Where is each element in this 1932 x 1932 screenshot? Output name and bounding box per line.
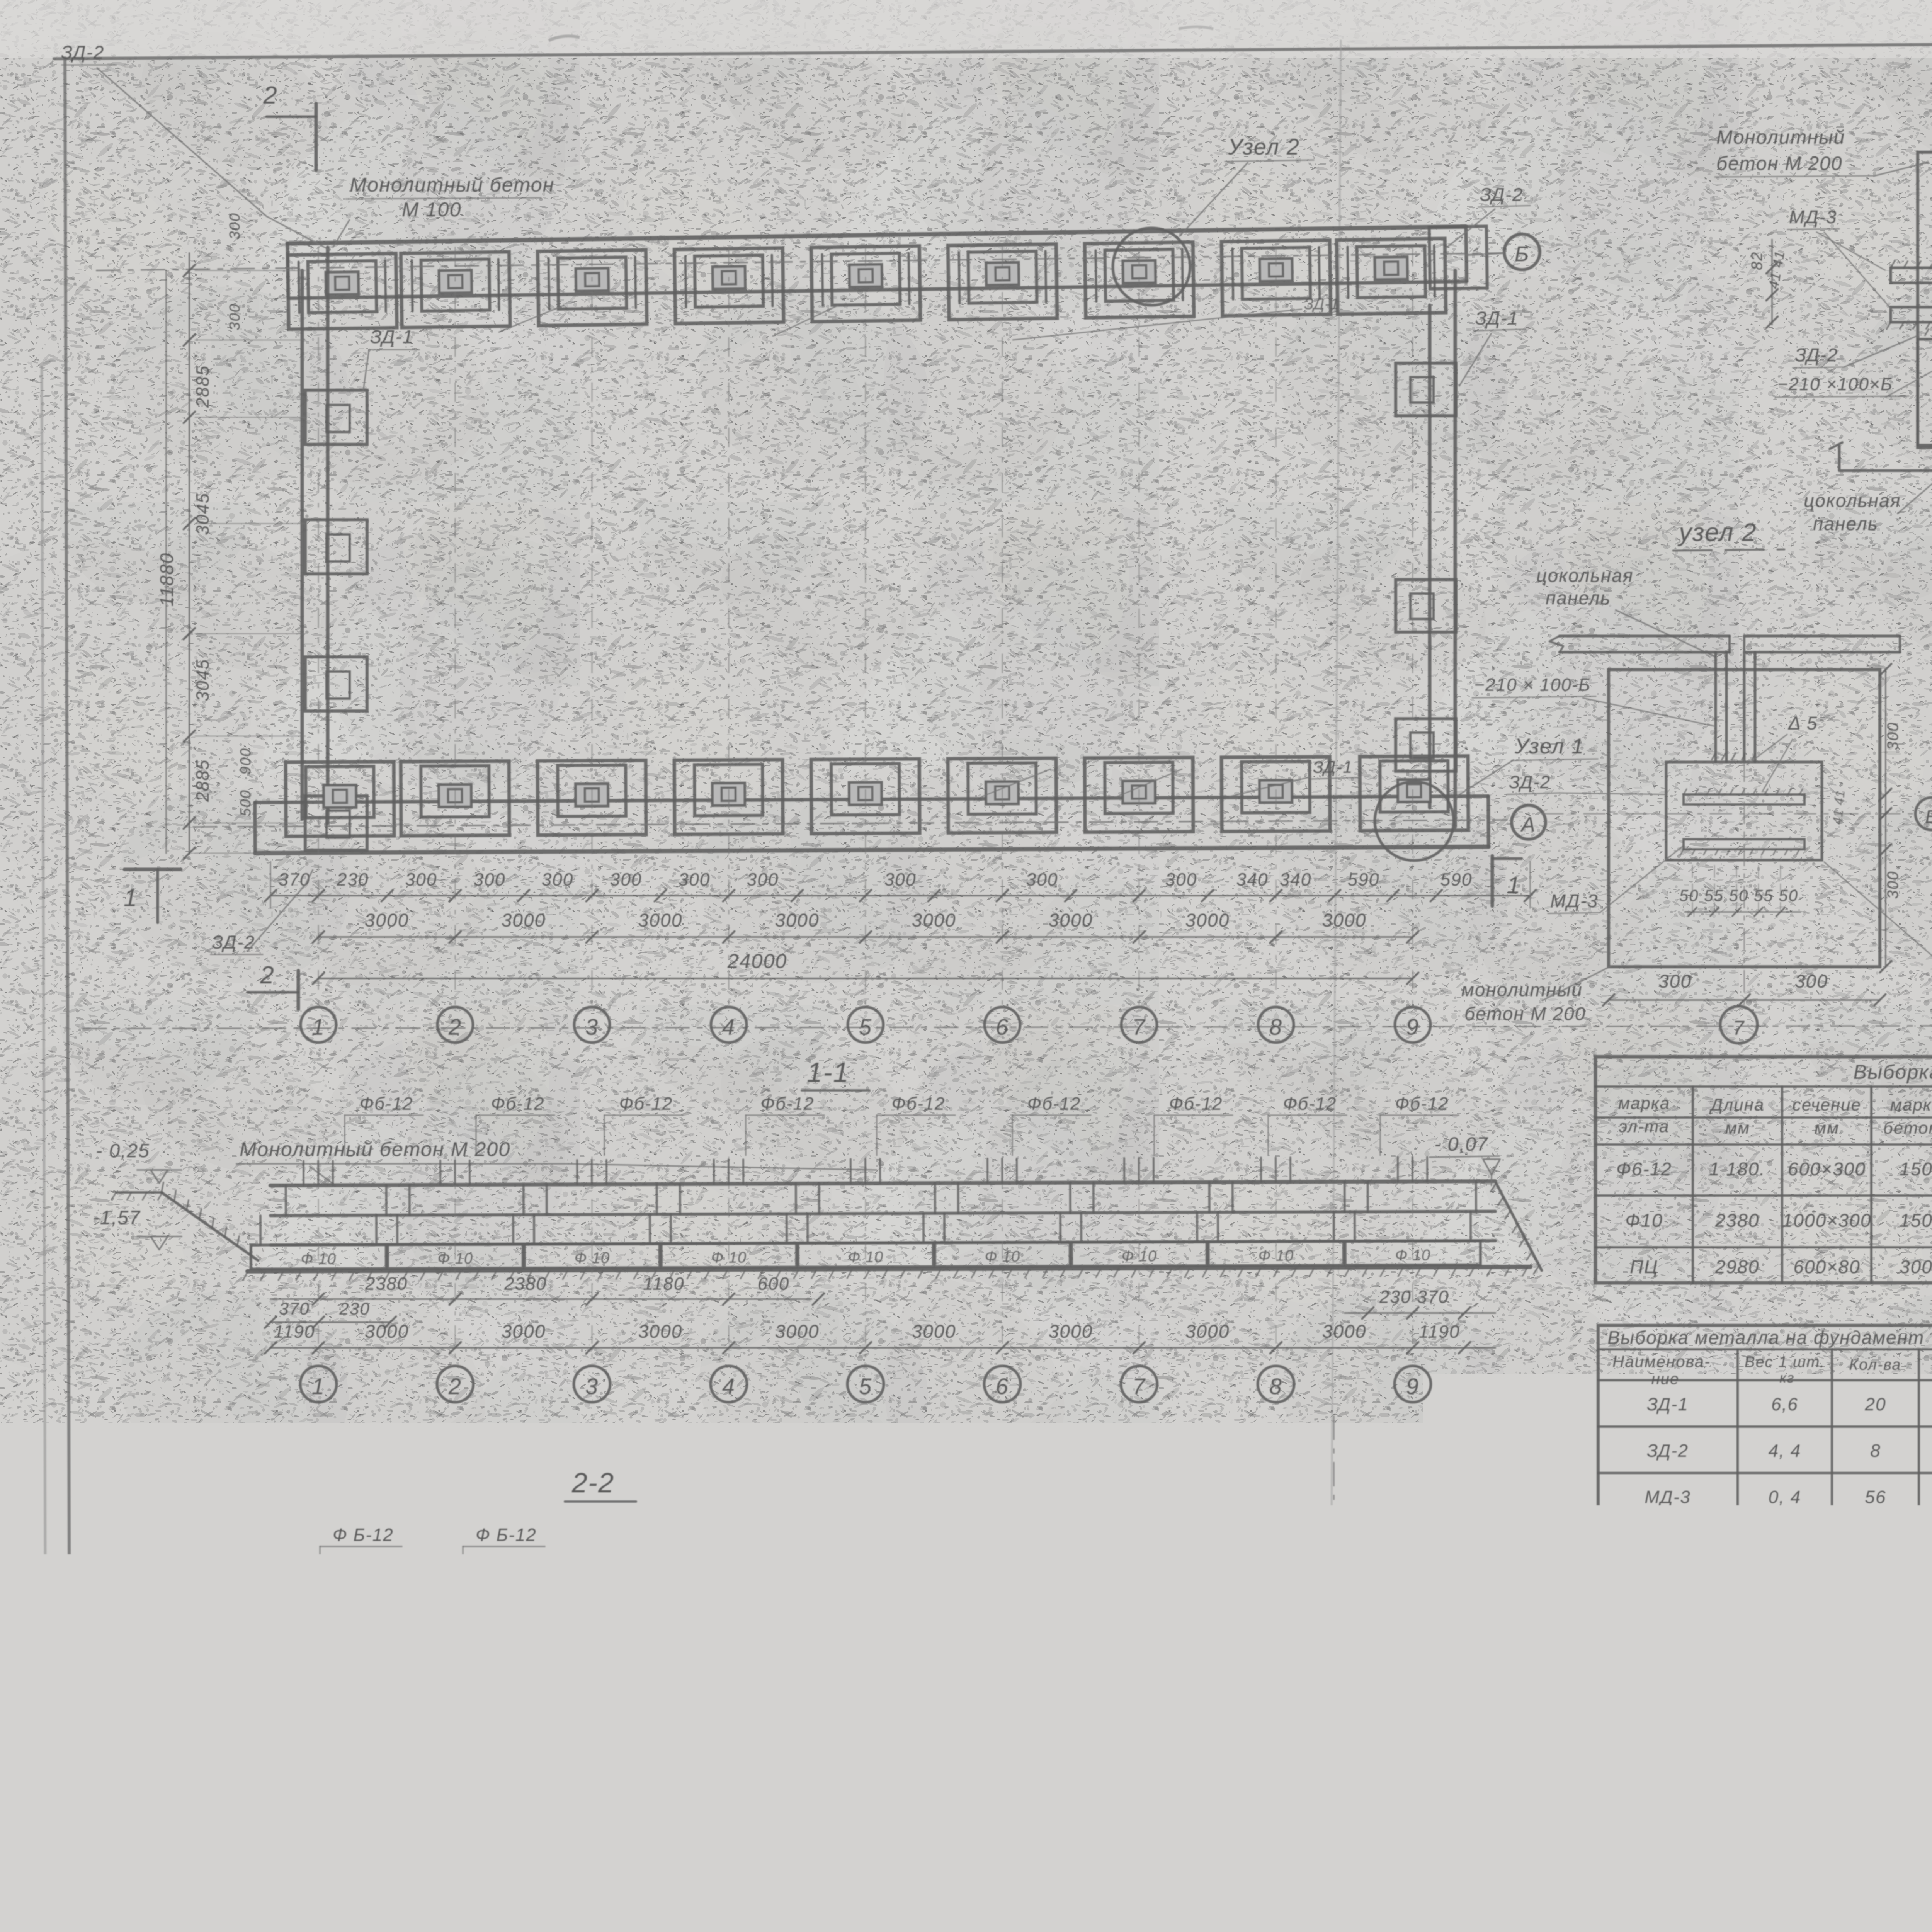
svg-text:марка: марка — [1618, 1094, 1670, 1113]
svg-text:А: А — [859, 1828, 874, 1850]
svg-text:ЗД-2: ЗД-2 — [61, 43, 104, 63]
plan left dimension chain — [189, 253, 190, 854]
svg-text:ФВ: ФВ — [305, 1692, 325, 1706]
pad F10 at axis — [1071, 1242, 1207, 1266]
svg-text:панель: панель — [1546, 588, 1611, 609]
right wall foundation block — [1396, 363, 1456, 416]
svg-text:2: 2 — [260, 961, 275, 989]
svg-text:370: 370 — [279, 869, 311, 889]
section 2-2 corner pad F10 right — [869, 1689, 913, 1707]
concrete block hatched — [1121, 1726, 1391, 1818]
bottom strip foundation unit at axis 2 — [401, 761, 509, 836]
svg-text:3000: 3000 — [775, 910, 820, 931]
top strip foundation unit at axis 4 — [674, 248, 784, 324]
top strip foundation unit at axis 9 — [1337, 238, 1446, 314]
svg-text:- 0,07: - 0,07 — [1434, 1133, 1488, 1155]
svg-text:- 0.25: - 0.25 — [1031, 1599, 1083, 1619]
section 3-3 centerline — [1333, 1416, 1335, 1832]
svg-text:1190: 1190 — [1419, 1321, 1460, 1342]
svg-text:Ф6-12: Ф6-12 — [1616, 1159, 1672, 1180]
svg-text:бетон М 200: бетон М 200 — [1716, 153, 1843, 174]
svg-text:7: 7 — [1733, 1017, 1745, 1039]
svg-text:300: 300 — [227, 213, 243, 239]
small marks top edge — [549, 36, 580, 41]
svg-text:Выборка металла на фундамент: Выборка металла на фундамент — [1607, 1328, 1924, 1348]
pad F10 at axis — [1345, 1241, 1480, 1265]
section 1-1 axis circle 3 — [592, 1157, 593, 1366]
svg-text:Смн: Смн — [1681, 1926, 1708, 1932]
svg-text:МД-3: МД-3 — [1550, 891, 1598, 912]
vertical axis line 8 (dashed) — [1275, 247, 1276, 1005]
svg-text:300: 300 — [1884, 871, 1901, 899]
svg-text:590: 590 — [1440, 869, 1473, 889]
uzel 2 axis circle B (right) — [1915, 798, 1932, 830]
axis circle 9 — [1395, 1007, 1430, 1043]
axis circle 6 — [985, 1007, 1020, 1043]
svg-text:ЗД-1: ЗД-1 — [1647, 1394, 1689, 1414]
svg-text:Разраб: Разраб — [1474, 1924, 1528, 1932]
svg-text:9: 9 — [1406, 1374, 1419, 1399]
svg-text:3000: 3000 — [365, 1321, 409, 1342]
section 2-2 body — [315, 1632, 891, 1636]
svg-text:Фундамент: Фундамент — [1909, 1861, 1932, 1892]
svg-text:Фб-12: Фб-12 — [892, 1094, 946, 1114]
pad F10 at axis — [935, 1242, 1070, 1267]
top strip foundation unit at axis 6 — [948, 244, 1057, 320]
svg-text:600×300: 600×300 — [1788, 1159, 1866, 1180]
left wall foundation block — [305, 390, 367, 444]
top strip foundation unit at axis 3 — [537, 250, 647, 326]
svg-text:2-2: 2-2 — [571, 1468, 614, 1498]
sheet frame: left border — [65, 58, 70, 1932]
svg-text:300: 300 — [474, 869, 506, 889]
sheet frame: top border — [54, 39, 1932, 59]
svg-text:500: 500 — [294, 1715, 324, 1734]
vertical axis line 4 (dashed) — [728, 247, 729, 1005]
svg-text:20: 20 — [1864, 1394, 1886, 1414]
top strip foundation unit at axis 1 — [287, 253, 397, 329]
svg-text:эл-та: эл-та — [1619, 1117, 1670, 1136]
base plate — [1174, 1726, 1355, 1740]
svg-text:4, 4: 4, 4 — [1769, 1440, 1801, 1461]
svg-text:3000: 3000 — [1322, 1321, 1367, 1342]
svg-text:8: 8 — [1269, 1374, 1282, 1399]
svg-text:Рук гр: Рук гр — [1474, 1903, 1522, 1919]
svg-text:- 0,25: - 0,25 — [96, 1140, 150, 1162]
svg-text:2885: 2885 — [192, 365, 213, 408]
svg-text:А: А — [1591, 1848, 1603, 1865]
bottom strip foundation unit at axis 7 — [1085, 757, 1193, 832]
section 1-1 right slope — [1496, 1183, 1542, 1270]
section 1-1 axis circle 1 — [318, 1157, 319, 1366]
bottom strip foundation unit at axis 3 — [537, 760, 646, 835]
svg-text:2: 2 — [263, 81, 278, 109]
left wall foundation block — [305, 657, 367, 711]
svg-text:Наименова-: Наименова- — [1612, 1352, 1711, 1371]
svg-text:−210 × 100× 6: −210 × 100× 6 — [1612, 1540, 1723, 1557]
vertical axis line 7 (dashed) — [1138, 247, 1139, 1005]
svg-text:230 370: 230 370 — [1379, 1287, 1449, 1307]
svg-text:Фб-12: Фб-12 — [1395, 1094, 1449, 1114]
svg-text:Вес 1 шт.: Вес 1 шт. — [1745, 1354, 1825, 1371]
right wall foundation block — [1396, 580, 1456, 632]
uzel 1 upper plate — [1891, 268, 1932, 283]
svg-text:11880: 11880 — [157, 553, 177, 607]
svg-text:Ф10: Ф10 — [1625, 1211, 1663, 1231]
svg-text:цокольная: цокольная — [1536, 566, 1634, 586]
svg-text:марка: марка — [1890, 1095, 1932, 1114]
svg-text:900: 900 — [238, 748, 254, 774]
section 1-1 axis circle 4 — [728, 1157, 730, 1366]
section 2-2 base line — [270, 1709, 935, 1713]
svg-text:7: 7 — [1133, 1374, 1146, 1399]
svg-text:Фб-12: Фб-12 — [360, 1094, 413, 1114]
svg-text:ЗД-1: ЗД-1 — [1304, 296, 1339, 313]
svg-text:ЗД-2: ЗД-2 — [1795, 345, 1838, 366]
uzel 2 right dim chain — [1885, 670, 1886, 967]
svg-text:ЗД-1: ЗД-1 — [370, 327, 413, 347]
section 1-1 axis circle 7 — [1139, 1157, 1140, 1366]
svg-text:Монолитный бетон М 200: Монолитный бетон М 200 — [240, 1138, 510, 1161]
foundation plan: left wall strip — [301, 270, 304, 819]
svg-text:цокольная: цокольная — [1804, 491, 1901, 511]
svg-text:Фб-12: Фб-12 — [1283, 1094, 1337, 1114]
svg-text:ЗД-1: ЗД-1 — [1475, 308, 1519, 329]
svg-text:бетон М 200: бетон М 200 — [1464, 1004, 1586, 1024]
bottom-left dark smudge (torn paper) — [189, 1883, 390, 1932]
bottom strip foundation unit at axis 8 — [1221, 757, 1330, 831]
svg-text:Монолитный: Монолитный — [1716, 126, 1845, 148]
svg-text:3000: 3000 — [502, 910, 546, 931]
svg-text:3000: 3000 — [912, 910, 956, 931]
svg-text:8: 8 — [1269, 1015, 1282, 1040]
svg-text:-0.07: -0.07 — [947, 1587, 994, 1607]
svg-text:ЗД-2: ЗД-2 — [1509, 772, 1551, 792]
svg-text:1180: 1180 — [643, 1274, 685, 1294]
svg-text:30 45: 30 45 — [699, 1740, 750, 1760]
svg-text:6: 6 — [996, 1374, 1009, 1399]
svg-text:Бруде: Бруде — [1569, 1878, 1616, 1895]
plan dimension row 2 (3000 between axes) — [318, 936, 1413, 938]
svg-text:Б: Б — [1925, 807, 1932, 827]
svg-text:ЗД-2: ЗД-2 — [1647, 1440, 1689, 1461]
svg-text:3000: 3000 — [1185, 910, 1230, 931]
svg-text:ние: ние — [1651, 1371, 1680, 1388]
svg-text:3000: 3000 — [1049, 910, 1093, 931]
svg-text:Фб-12: Фб-12 — [1169, 1094, 1223, 1114]
svg-text:590: 590 — [1348, 869, 1380, 889]
svg-text:4: 4 — [722, 1015, 735, 1040]
svg-text:Длина: Длина — [1709, 1095, 1765, 1114]
svg-text:3000: 3000 — [638, 1321, 683, 1342]
svg-text:Соколов: Соколов — [1569, 1926, 1623, 1932]
svg-text:340: 340 — [1236, 869, 1269, 889]
vertical axis line 5 (dashed) — [865, 247, 866, 1005]
svg-text:8: 8 — [1870, 1440, 1881, 1461]
uzel 2 axis circle A (left) — [1542, 813, 1920, 815]
table: vyborka sbornyh ZhB elementov — [1595, 1057, 1932, 1283]
svg-text:300: 300 — [542, 869, 574, 889]
svg-text:3045: 3045 — [527, 1740, 571, 1760]
uzel 1 bottom step outline — [1839, 445, 1932, 471]
uzel 1 lower plate — [1891, 307, 1932, 322]
svg-text:2380: 2380 — [365, 1274, 408, 1294]
svg-text:11 8 60: 11 8 60 — [568, 1775, 637, 1796]
svg-text:300: 300 — [1900, 1257, 1932, 1277]
svg-text:300: 300 — [679, 869, 711, 889]
svg-text:300: 300 — [1658, 971, 1692, 992]
svg-text:Б: Б — [1515, 241, 1529, 266]
sheet frame: left paper edge — [42, 367, 46, 1932]
svg-text:ПЦ: ПЦ — [1630, 1257, 1658, 1277]
svg-text:3000: 3000 — [1322, 910, 1367, 931]
section 1-1 dimensions row A — [270, 1298, 811, 1300]
svg-text:1000×300: 1000×300 — [1782, 1211, 1872, 1231]
svg-text:Фб-12: Фб-12 — [761, 1094, 815, 1114]
section 1-1 axis circle 9 — [1412, 1157, 1413, 1366]
plan dimension row 3 (24000 overall) — [318, 978, 1413, 979]
svg-text:2885: 2885 — [808, 1740, 853, 1760]
section 2-2 right slope — [891, 1634, 938, 1711]
section marker 1 (left) — [124, 868, 181, 871]
right wall foundation block — [1396, 719, 1456, 771]
svg-text:7: 7 — [1133, 1015, 1146, 1040]
svg-text:41 41: 41 41 — [1830, 789, 1848, 825]
svg-text:1-1: 1-1 — [807, 1057, 849, 1088]
svg-text:82: 82 — [1748, 252, 1765, 270]
foundation plan: top wall strip (axis B) — [287, 226, 1488, 329]
svg-text:Монолитный бетон М 200: Монолитный бетон М 200 — [235, 1587, 506, 1609]
svg-text:А: А — [1520, 813, 1536, 836]
svg-text:Δ 5: Δ 5 — [1788, 713, 1818, 734]
svg-text:300: 300 — [738, 1715, 769, 1734]
svg-text:МД-3: МД-3 — [1789, 207, 1837, 228]
svg-text:мм: мм — [1725, 1119, 1750, 1138]
svg-text:Монолитный бетон: Монолитный бетон — [350, 174, 554, 196]
svg-text:3000: 3000 — [502, 1321, 546, 1342]
svg-text:МД-3: МД-3 — [1645, 1487, 1691, 1507]
svg-text:Кол-ва: Кол-ва — [1849, 1356, 1901, 1373]
section 1-1 axis circle 5 — [865, 1157, 866, 1366]
svg-text:1, 0: 1, 0 — [1770, 1540, 1799, 1557]
svg-text:2380: 2380 — [1715, 1211, 1760, 1231]
top strip foundation unit at axis 7 — [1085, 242, 1194, 318]
svg-text:Ф Б-12: Ф Б-12 — [754, 1525, 815, 1545]
svg-text:Литера: Литера — [1473, 1850, 1534, 1867]
svg-text:Фб-12: Фб-12 — [1027, 1094, 1081, 1114]
svg-text:230: 230 — [337, 869, 369, 889]
svg-text:ЗД-1: ЗД-1 — [1313, 758, 1353, 777]
svg-text:590 590: 590 590 — [399, 1715, 466, 1734]
svg-text:−210 ×100×Б: −210 ×100×Б — [1777, 374, 1893, 394]
svg-text:500: 500 — [334, 1715, 365, 1734]
svg-text:1: 1 — [312, 1015, 325, 1040]
uzel 2 big square (monolithic M200) — [1609, 670, 1880, 967]
svg-text:4: 4 — [722, 1374, 735, 1399]
top strip foundation unit at axis 5 — [811, 246, 920, 322]
axis circle A (plan) — [1512, 805, 1546, 839]
axis circle 8 — [1258, 1007, 1294, 1043]
section 1-1 dimensions row C (1190/3000) — [270, 1347, 1495, 1349]
vertical axis line 6 (dashed) — [1002, 247, 1003, 1005]
svg-text:кг: кг — [1780, 1370, 1795, 1386]
svg-text:600: 600 — [758, 1274, 790, 1294]
main horizontal axis line through circles 1-9 — [83, 1025, 1932, 1029]
svg-text:Узел 2: Узел 2 — [1228, 134, 1300, 160]
section 2-2 axis circle B — [330, 1634, 332, 1816]
svg-text:2. Монтажные детали см.: 2. Монтажные детали см. лист № 29 — [1827, 1708, 1932, 1731]
axis line B (dashed) — [97, 253, 1503, 270]
bottom strip foundation unit at axis 4 — [674, 760, 783, 834]
svg-text:Б: Б — [324, 1830, 338, 1853]
svg-text:3000: 3000 — [638, 910, 683, 931]
axis circle 1 — [301, 1007, 336, 1043]
uzel 2 top panels — [1560, 635, 1730, 638]
svg-text:3000: 3000 — [365, 910, 409, 931]
svg-text:150: 150 — [1900, 1211, 1932, 1231]
svg-text:8: 8 — [1257, 1843, 1269, 1866]
svg-text:узел 2: узел 2 — [1677, 518, 1757, 546]
foundation plan: right wall strip — [1428, 305, 1432, 808]
svg-text:1. Данный лист читать: 1. Данный лист читать совместно с листам… — [1828, 1673, 1932, 1696]
axis circle 4 — [711, 1007, 747, 1043]
section 2-2 axis circle A — [866, 1634, 867, 1815]
svg-text:3000: 3000 — [912, 1321, 956, 1342]
svg-text:230: 230 — [339, 1299, 370, 1318]
svg-text:5: 5 — [859, 1015, 872, 1040]
svg-text:300: 300 — [884, 869, 917, 889]
svg-text:370: 370 — [279, 1299, 310, 1318]
svg-text:гл спец: гл спец — [1474, 1879, 1531, 1895]
top-right corner block — [1429, 226, 1487, 289]
svg-text:340: 340 — [1280, 869, 1312, 889]
section marker 2 (top) — [315, 104, 318, 170]
svg-text:2380: 2380 — [504, 1274, 547, 1294]
svg-text:сечение: сечение — [1793, 1095, 1861, 1114]
svg-text:Ф Б-12: Ф Б-12 — [476, 1525, 537, 1545]
svg-text:Фб-12: Фб-12 — [619, 1094, 673, 1114]
svg-text:2: 2 — [448, 1015, 462, 1040]
section 2-2 dimensions — [286, 1738, 866, 1740]
svg-text:500: 500 — [804, 1715, 834, 1734]
svg-text:978: 978 — [1774, 1883, 1830, 1920]
uzel 2 inner plates — [1684, 794, 1804, 804]
svg-text:3045: 3045 — [192, 493, 213, 535]
svg-text:300: 300 — [1795, 971, 1828, 992]
vertical axis line 3 (dashed) — [591, 247, 592, 1005]
svg-text:300: 300 — [1165, 869, 1197, 889]
svg-text:панель: панель — [1813, 514, 1878, 534]
svg-text:3: 3 — [585, 1015, 599, 1040]
table: vyborka metalla na fundament — [1598, 1325, 1932, 1574]
axis circle 7 — [1121, 1007, 1157, 1043]
svg-text:Узел 1: Узел 1 — [1514, 734, 1584, 758]
section 2-2 corner pad F10 left — [293, 1689, 337, 1707]
bottom strip foundation unit at axis 5 — [811, 759, 920, 833]
title block (stamp) — [1464, 1842, 1932, 1932]
svg-text:-1,57: -1,57 — [93, 1207, 141, 1228]
svg-text:3000: 3000 — [1049, 1321, 1093, 1342]
svg-text:2885: 2885 — [192, 759, 213, 802]
bottom strip foundation unit at axis 6 — [948, 758, 1056, 833]
svg-text:6: 6 — [996, 1015, 1009, 1040]
svg-text:Ф Б-12: Ф Б-12 — [616, 1525, 677, 1545]
svg-text:590 590: 590 590 — [546, 1715, 613, 1734]
pad F10 at axis — [661, 1243, 796, 1267]
svg-text:Фб-12: Фб-12 — [491, 1094, 545, 1114]
svg-text:3: 3 — [585, 1374, 599, 1399]
uzel 2 inner block — [1666, 762, 1822, 860]
svg-text:1: 1 — [312, 1374, 325, 1399]
fold line vertical — [1329, 41, 1341, 1893]
svg-text:−210 × 100-Б: −210 × 100-Б — [1474, 675, 1591, 695]
section 1-1 axis circle 2 — [455, 1157, 456, 1366]
left wall foundation block — [305, 520, 367, 574]
svg-text:-1,57: -1,57 — [1029, 1669, 1075, 1690]
section 3-3 anchor bolt MD-4 — [1252, 1638, 1285, 1701]
svg-text:Выборка сборных Ж.Б: Выборка сборных Ж.Б. элементов — [1853, 1061, 1932, 1083]
svg-text:ЗД-2: ЗД-2 — [1480, 185, 1523, 205]
pad F10 at axis — [1208, 1241, 1344, 1265]
svg-text:6,6: 6,6 — [1771, 1394, 1798, 1414]
top strip foundation unit at axis 8 — [1221, 240, 1331, 316]
top strip foundation unit at axis 2 — [401, 252, 510, 328]
section marker 2 (bottom) — [297, 971, 300, 1009]
svg-text:600×80: 600×80 — [1793, 1257, 1861, 1277]
svg-text:300: 300 — [405, 869, 437, 889]
section marker 1 (right) — [1491, 856, 1494, 906]
section 1-1 dimensions row B (370/230) — [270, 1321, 390, 1323]
svg-text:150: 150 — [1900, 1159, 1932, 1180]
vertical axis line 2 (dashed) — [454, 247, 456, 1005]
pad F10 at axis — [251, 1245, 386, 1269]
svg-text:3-3: 3-3 — [1241, 1519, 1284, 1550]
svg-text:9: 9 — [1406, 1015, 1419, 1040]
pad F10 at axis — [388, 1244, 523, 1269]
uzel 1 lower block — [1918, 339, 1932, 445]
svg-text:2885: 2885 — [379, 1740, 424, 1760]
left wall foundation block — [305, 796, 367, 850]
svg-text:0, 4: 0, 4 — [1769, 1487, 1801, 1507]
foundation plan: bottom wall strip (axis A) — [255, 756, 1488, 853]
svg-text:М 100: М 100 — [402, 199, 462, 221]
pad F10 at axis — [798, 1243, 933, 1267]
bottom strip foundation unit at axis 9 — [1360, 756, 1468, 831]
svg-text:300: 300 — [610, 869, 642, 889]
svg-text:3000: 3000 — [1185, 1321, 1230, 1342]
svg-text:10: 10 — [1468, 1687, 1488, 1706]
svg-text:56: 56 — [1865, 1487, 1886, 1507]
axis circle 2 — [437, 1007, 473, 1043]
axis circle 5 — [848, 1007, 883, 1043]
svg-text:2980: 2980 — [1715, 1257, 1760, 1277]
svg-text:1190: 1190 — [274, 1321, 315, 1342]
section 1-1 body — [242, 1157, 1530, 1281]
svg-text:18: 18 — [1866, 1540, 1885, 1557]
section 1-1 axis circle 8 — [1276, 1157, 1277, 1366]
pad F10 at axis — [524, 1243, 660, 1268]
svg-text:1 180.: 1 180. — [1709, 1159, 1765, 1180]
svg-text:300: 300 — [1884, 722, 1901, 750]
svg-text:Ф10: Ф10 — [882, 1692, 908, 1706]
detail circle Uzel 2 on plan — [1113, 228, 1190, 305]
svg-text:300: 300 — [227, 303, 243, 330]
svg-text:2: 2 — [448, 1374, 462, 1399]
svg-text:24000: 24000 — [727, 950, 787, 973]
svg-text:3045: 3045 — [192, 659, 213, 701]
svg-text:3000: 3000 — [775, 1321, 820, 1342]
section 1-1 left slope — [162, 1192, 258, 1260]
